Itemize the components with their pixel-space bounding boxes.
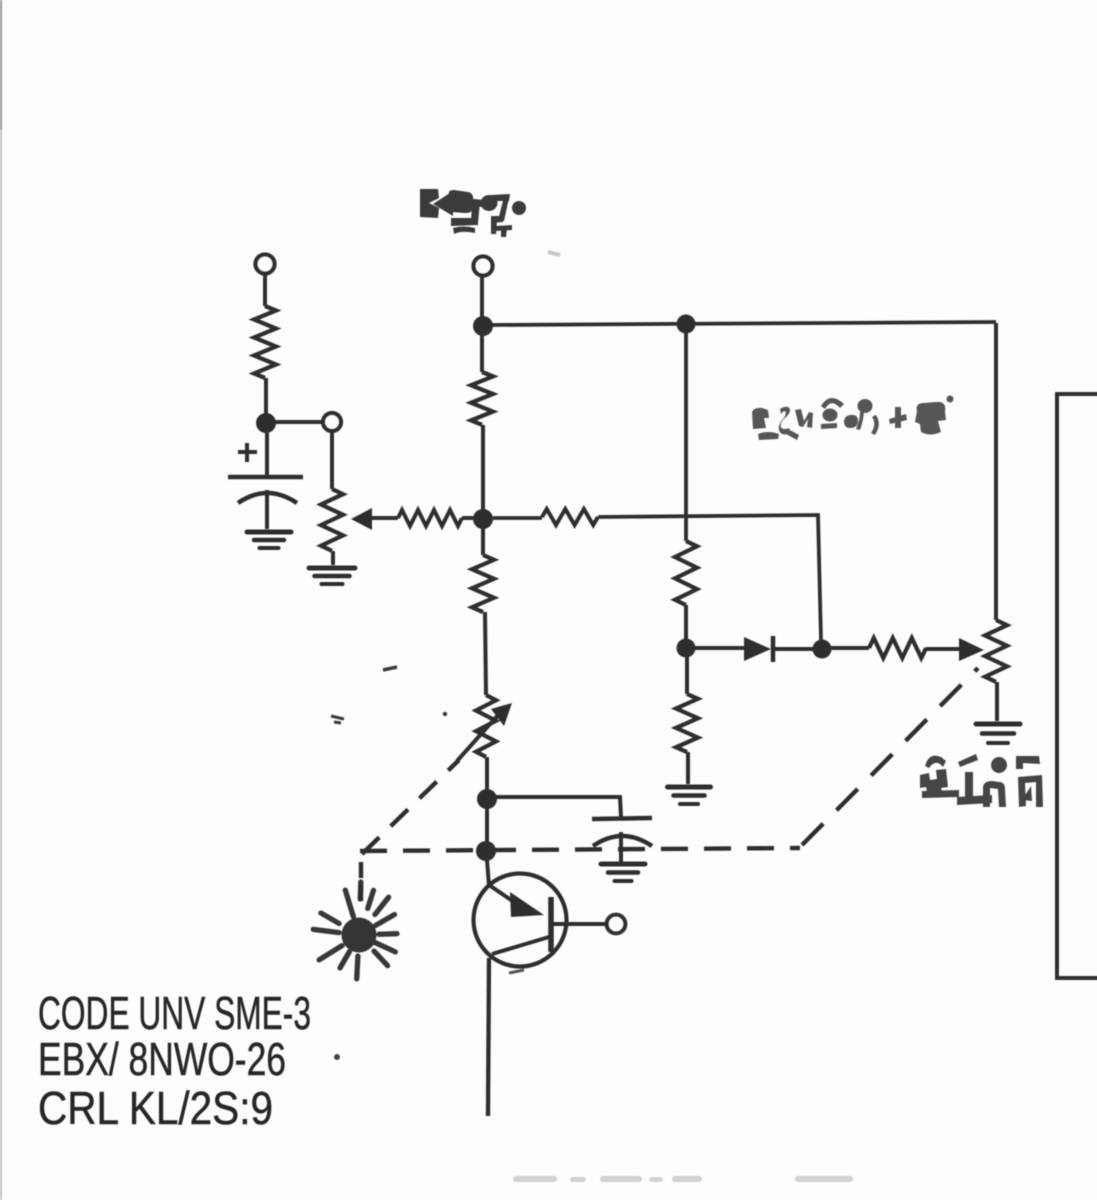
terminal: left supply terminal [256,255,275,274]
speck: faint mark near top [548,252,560,255]
scribble: smudge right of P2 ground [920,754,1043,807]
speck: marks lower left of R5 [331,716,344,723]
dashed optical axis (horizontal) [360,848,800,851]
potentiometer P1 body [321,489,343,551]
wire: left node to P1 terminal [275,420,323,424]
wire: terminal to junction [480,276,484,317]
box: inset frame at right edge [1057,394,1097,978]
resistor R9 (left column) [254,306,276,378]
resistor R1 (center column upper) [471,372,493,425]
arrow through R5 [457,703,512,761]
junction: top of center column [473,316,493,336]
wire: R5 to cap junction [485,757,489,790]
wire: R1 to wiper junction [481,425,485,510]
wire: middle column upper [684,333,688,541]
junction: R5 / C2 node [477,789,497,809]
wire: junction to R3 [493,516,542,520]
wiper arrow of P1 [351,508,398,530]
resistor R7 (middle column lower) [676,694,698,752]
terminal: P1 top terminal [323,413,341,431]
wire: junction to R7 [685,657,689,694]
wire: terminal to R9 [263,274,267,306]
svg-text:CRL KL/2S:9: CRL KL/2S:9 [38,1082,273,1134]
dashed optical axis (left diagonal to R5) [362,760,459,854]
scan artifact: left edge line [0,0,2,1200]
junction: top rail / middle column [677,315,696,334]
wire: junction to R1 [480,335,484,372]
junction: middle column / diode row [677,639,696,658]
wire: R4 to rheostat R5 [485,612,486,695]
wire: R7 to ground [686,752,690,784]
diode D1 [695,636,813,662]
svg-text:CODE UNV SME-3: CODE UNV SME-3 [38,987,311,1039]
wire: node to capacitor C2 [496,797,621,817]
wire: P2 to ground [995,682,999,721]
wire: into phototransistor [487,860,489,886]
svg-text:EBX/ 8NWO-26: EBX/ 8NWO-26 [38,1033,286,1085]
phototransistor Q1 [474,874,607,974]
wire: diode node to R8 [831,646,869,650]
polarity + of C1 [238,443,257,462]
terminal: center supply terminal [474,257,493,276]
wire: top supply rail [492,322,996,325]
wiper arrow of P2 [926,638,984,661]
wire: right column down to potentiometer [994,323,998,620]
speck: dot near R5 [443,712,447,716]
scribble: smudged handwriting above diode row [752,396,954,441]
wire: R3 to diode node corner [598,515,821,640]
wire: R9 to junction [264,378,268,414]
ground: below P2 [976,722,1020,727]
wire: junction to junction on dashed line [485,808,489,843]
terminal: base lead terminal [607,915,626,934]
wire: R6 to junction [684,605,688,640]
junction: left node [256,413,276,433]
faint caption fragments at bottom [513,1176,853,1182]
resistor R4 (center column mid) [472,555,494,612]
resistor R6 (middle column upper) [675,541,697,605]
ground: below P1 [309,566,355,571]
rheostat R5 (light sensitive) [476,695,496,757]
lamp: light source (sun symbol) [313,882,397,979]
wire: wiper junction to R4 [481,528,485,555]
resistor R8 (series to P2 wiper) [869,638,926,658]
scribble: smudged handwriting above supply terminal [420,189,526,237]
speck: dash left of R5 [383,667,397,670]
wire: emitter down [488,958,489,1116]
ground: below C1 [247,530,291,535]
potentiometer P2 body [985,620,1007,682]
dashed lead to lamp [359,862,363,901]
junction: collector node on optical axis [476,841,496,861]
capacitor C2 [592,818,652,862]
ground: below R7 [668,785,711,790]
resistor R3 (wiper row right) [542,509,598,525]
capacitor C1 (polarized) [228,477,303,529]
resistor R2 (wiper row left) [398,510,462,526]
wire: left node to C1 [265,433,269,475]
junction: center column / wiper row [473,509,493,529]
ground: below C2 [601,862,645,867]
wire: R2 to center junction [462,516,474,520]
speck: dot right of EBX line [334,1054,340,1060]
wire: P1 to ground [331,551,335,565]
wire: terminal to P1 [330,431,334,489]
junction: diode cathode node [813,640,832,659]
dashed optical axis (right diagonal to P2) [802,668,978,845]
